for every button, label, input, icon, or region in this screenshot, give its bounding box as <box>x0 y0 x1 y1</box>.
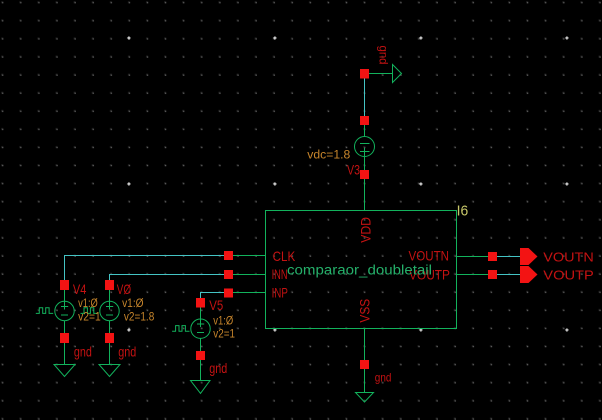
svg-text:gnd: gnd <box>74 344 92 360</box>
svg-text:v2=1.8: v2=1.8 <box>124 311 154 323</box>
svg-text:gnd: gnd <box>375 371 392 385</box>
svg-text:INP: INP <box>272 284 288 300</box>
svg-text:v1:Ø: v1:Ø <box>122 298 144 310</box>
svg-text:v1:Ø: v1:Ø <box>213 315 233 327</box>
svg-text:VSS: VSS <box>357 299 373 323</box>
svg-text:V3: V3 <box>347 162 360 178</box>
svg-text:vdc=1.8: vdc=1.8 <box>307 150 350 162</box>
svg-text:VOUTN: VOUTN <box>543 249 594 264</box>
svg-text:INN: INN <box>272 266 288 282</box>
svg-text:v1:Ø: v1:Ø <box>78 298 98 310</box>
svg-text:I6: I6 <box>457 203 469 220</box>
svg-text:v2=1: v2=1 <box>213 329 235 341</box>
svg-text:VDD: VDD <box>358 217 374 243</box>
svg-text:gnd: gnd <box>377 46 391 65</box>
svg-text:V5: V5 <box>209 297 223 313</box>
svg-text:VOUTP: VOUTP <box>543 268 594 283</box>
svg-text:V4: V4 <box>73 281 87 297</box>
svg-text:VOUTN: VOUTN <box>409 248 450 264</box>
svg-text:comparaor_doubletail: comparaor_doubletail <box>287 263 432 278</box>
svg-text:gnd: gnd <box>118 344 136 360</box>
svg-text:v2=1: v2=1 <box>78 311 101 323</box>
svg-text:VØ: VØ <box>117 281 131 297</box>
svg-text:gnd: gnd <box>209 360 227 376</box>
